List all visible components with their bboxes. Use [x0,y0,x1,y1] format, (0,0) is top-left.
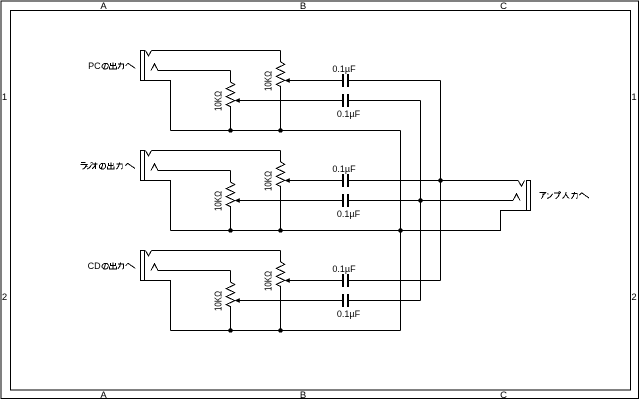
label CDの出力へ [88,261,136,271]
svg-text:0.1µF: 0.1µF [337,309,361,319]
svg-text:C: C [500,1,507,12]
wire CD ground run [171,330,401,332]
svg-text:2: 2 [2,292,7,303]
svg-text:10KΩ: 10KΩ [264,271,275,291]
wire J1 ring to VR1 top [158,70,231,72]
junction VR2 to ground [278,128,283,133]
label アンプ入力へ [540,192,589,199]
capacitor C1 0.1µF [342,74,349,87]
wire J2 ring to VR3 top [158,170,231,172]
svg-text:C: C [500,390,507,400]
potentiometer VR5 10KΩ (CD left) [226,271,235,331]
junction L bus to J4 ring line [418,198,423,203]
wire J3 sleeve to ground run [145,281,171,331]
junction VR4 to ground [278,228,283,233]
wire C2 to L bus [349,100,421,102]
wire J2 tip to VR4 top [152,150,281,152]
svg-text:10KΩ: 10KΩ [264,71,275,91]
wire J1 tip to VR2 top [152,50,281,52]
capacitor C2 0.1µF [342,94,349,107]
wire VR5 wiper to C6 [239,300,342,302]
svg-text:0.1µF: 0.1µF [337,209,361,219]
wire C3 to J4 tip (R mix node) [349,180,518,182]
wire C1 to R bus [349,80,441,82]
svg-text:0.1µF: 0.1µF [332,164,356,174]
junction VR6 to ground [278,328,283,333]
potentiometer VR1 10KΩ (PC left) [226,71,235,131]
jack J3 CD input (stereo phone jack) [141,251,159,281]
jack J4 amplifier output (stereo phone jack) [513,181,531,211]
svg-text:2: 2 [631,292,636,303]
wiper arrow VR4 [285,178,290,183]
svg-text:1: 1 [631,92,636,103]
wire PC ground run [171,130,401,132]
svg-text:0.1µF: 0.1µF [332,64,356,74]
wire J1 sleeve to ground run [145,81,171,131]
wire VR4 wiper to C3 [289,180,342,182]
wire C4 to J4 ring (L mix node) [349,200,513,202]
capacitor C4 0.1µF [342,194,349,207]
jack J1 PC input (stereo phone jack) [141,51,159,81]
svg-text:10KΩ: 10KΩ [214,191,225,211]
junction ground bus to J4 sleeve line [398,228,403,233]
capacitor C6 0.1µF [342,294,349,307]
svg-text:B: B [300,390,306,400]
potentiometer VR4 10KΩ (radio right) [276,151,285,231]
potentiometer VR2 10KΩ (PC right) [276,51,285,131]
wiper arrow VR3 [235,198,240,203]
svg-text:0.1µF: 0.1µF [332,264,356,274]
label ラジオの出力へ [80,162,135,169]
junction VR5 to ground [228,328,233,333]
wire radio ground run to J4 sleeve [171,211,531,231]
wiper arrow VR2 [285,78,290,83]
jack J2 radio input (stereo phone jack) [141,151,159,181]
wire C6 to L bus [349,300,421,302]
capacitor C3 0.1µF [342,174,349,187]
svg-text:0.1µF: 0.1µF [337,109,361,119]
svg-text:10KΩ: 10KΩ [214,291,225,311]
junction VR1 to ground [228,128,233,133]
svg-text:10KΩ: 10KΩ [264,171,275,191]
svg-text:CD: CD [88,261,101,271]
wiper arrow VR5 [235,298,240,303]
wire VR1 wiper to C2 [239,100,342,102]
wire R mix bus [440,81,442,281]
svg-text:A: A [100,390,107,400]
wiper arrow VR6 [285,278,290,283]
svg-text:B: B [300,1,306,12]
wire J2 sleeve to ground run [145,181,171,231]
wire ground bus [400,131,402,331]
svg-text:1: 1 [2,92,7,103]
wire VR3 wiper to C4 [239,200,342,202]
wire J3 tip to VR6 top [152,250,281,252]
wire J3 ring to VR5 top [158,270,231,272]
wire C5 to R bus [349,280,441,282]
wiper arrow VR1 [235,98,240,103]
junction VR3 to ground [228,228,233,233]
svg-text:PC: PC [88,61,101,71]
svg-text:A: A [100,1,107,12]
svg-text:10KΩ: 10KΩ [214,91,225,111]
potentiometer VR3 10KΩ (radio left) [226,171,235,231]
junction R bus to J4 tip line [438,178,443,183]
capacitor C5 0.1µF [342,274,349,287]
label PCの出力へ [88,61,135,71]
potentiometer VR6 10KΩ (CD right) [276,251,285,331]
wire VR6 wiper to C5 [289,280,342,282]
wire L mix bus [420,101,422,301]
wire VR2 wiper to C1 [289,80,342,82]
